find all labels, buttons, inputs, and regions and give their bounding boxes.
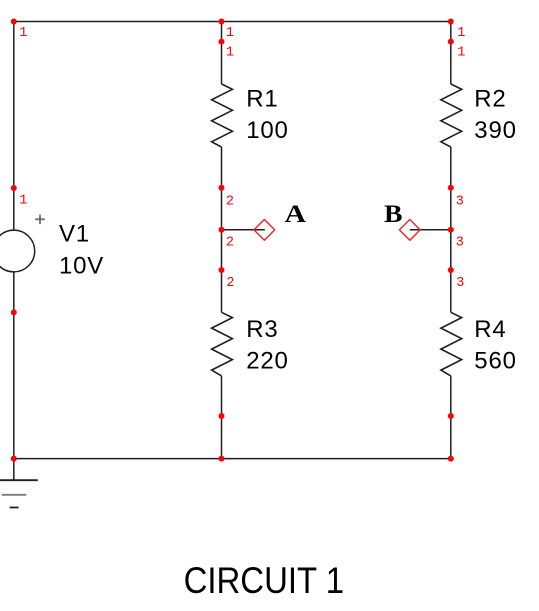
pin R2.1 (448, 39, 454, 45)
svg-text:560: 560 (474, 348, 516, 375)
voltage source V1 circle (0, 230, 35, 272)
svg-text:100: 100 (246, 117, 288, 144)
resistor R4 (441, 312, 462, 376)
ground (0, 480, 38, 507)
pin V1.1 (11, 185, 17, 191)
svg-text:2: 2 (226, 276, 234, 291)
svg-text:1: 1 (226, 45, 234, 60)
wire right vertical mid (R2 to R4, net 3) (450, 147, 452, 312)
svg-text:1: 1 (226, 26, 234, 41)
svg-text:R1: R1 (246, 85, 278, 112)
pin R3.2 (219, 413, 225, 419)
junction bottom-right (ground) (448, 456, 454, 462)
svg-text:2: 2 (226, 235, 234, 250)
svg-text:1: 1 (457, 45, 465, 60)
svg-text:A: A (285, 201, 307, 228)
svg-text:2: 2 (226, 194, 234, 209)
junction top-right (net 1) (448, 19, 454, 25)
svg-text:R2: R2 (474, 85, 506, 112)
svg-text:1: 1 (19, 194, 27, 209)
pin R4.2 (448, 413, 454, 419)
wire right vertical bottom (R4 to bottom rail) (450, 376, 452, 459)
junction node A (net 2) (219, 227, 225, 233)
pin R1.2 (219, 185, 225, 191)
junction bottom-left (ground) (11, 456, 17, 462)
node A probe diamond (254, 220, 275, 241)
pin R3.1 (219, 267, 225, 273)
pin R2.2 (448, 185, 454, 191)
junction top-middle (net 1) (219, 19, 225, 25)
wire right vertical top stub (net 1 to R2) (450, 22, 452, 85)
wire middle vertical mid (R1 to R3, net 2) (221, 147, 223, 312)
svg-text:10V: 10V (59, 252, 104, 279)
pin R1.1 (219, 39, 225, 45)
node B probe diamond (399, 219, 420, 240)
resistor R2 (441, 84, 462, 147)
svg-text:390: 390 (474, 117, 516, 144)
wire middle vertical bottom (R3 to bottom rail) (221, 376, 223, 459)
resistor R3 (212, 312, 233, 376)
wire bottom rail ground net (14, 458, 451, 460)
wire stub to node A probe (222, 229, 265, 231)
pin R4.1 (448, 267, 454, 273)
svg-text:CIRCUIT 1: CIRCUIT 1 (184, 560, 344, 601)
svg-text:1: 1 (457, 26, 465, 41)
resistor R1 (212, 84, 233, 147)
svg-text:R4: R4 (474, 316, 506, 343)
junction top-left (net 1) (11, 19, 17, 25)
svg-text:B: B (384, 201, 403, 228)
junction node B (net 3) (448, 227, 454, 233)
svg-text:220: 220 (246, 348, 288, 375)
wire top rail net 1 (14, 21, 451, 23)
svg-text:3: 3 (456, 194, 464, 209)
V1 plus sign (35, 215, 45, 225)
svg-text:3: 3 (456, 276, 464, 291)
wire middle vertical top stub (net 1 to R1) (221, 22, 223, 85)
svg-text:1: 1 (19, 26, 27, 41)
wire stub to node B probe (410, 229, 451, 231)
svg-text:R3: R3 (246, 316, 278, 343)
wire left vertical lower (V1 minus pin to ground) (13, 272, 15, 480)
junction bottom-middle (ground) (219, 456, 225, 462)
wire left vertical upper (net 1 to V1 plus pin) (13, 22, 15, 231)
svg-text:V1: V1 (59, 221, 90, 248)
svg-text:3: 3 (456, 235, 464, 250)
pin V1.2 (11, 309, 17, 315)
